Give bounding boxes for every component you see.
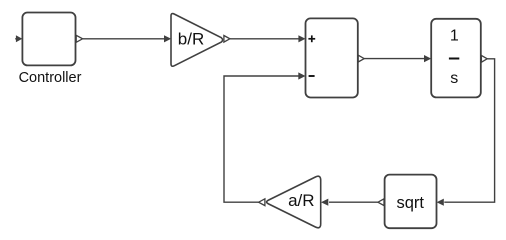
controller block Controller: [22, 13, 75, 66]
arrowhead into sqrt: [437, 199, 444, 206]
output port triangle of Controller: [76, 35, 82, 42]
output port triangle of b/R: [224, 36, 230, 43]
gain b/R: [171, 14, 223, 67]
feedback wire a/R to Sum minus input: [224, 76, 299, 202]
wire Controller to b/R: [83, 38, 165, 40]
arrowhead into Integrator: [424, 55, 431, 62]
sqrt block: [385, 175, 437, 229]
arrowhead into b/R: [164, 35, 171, 42]
svg-text:Controller: Controller: [19, 70, 82, 86]
input port arrow of Controller: [15, 35, 22, 42]
minus sign: [309, 75, 315, 77]
svg-text:s: s: [450, 70, 458, 87]
wire sqrt to a/R: [329, 201, 378, 203]
output port triangle of Sum: [358, 55, 364, 62]
wire b/R to Sum: [230, 38, 299, 40]
gain a/R: [267, 176, 321, 228]
output port triangle of sqrt: [378, 199, 384, 206]
wire Sum to Integrator: [364, 58, 424, 60]
wire Integrator down to sqrt: [444, 59, 494, 202]
arrowhead into Sum minus input: [298, 72, 305, 79]
output port triangle of a/R: [259, 199, 265, 206]
svg-text:b/R: b/R: [178, 30, 204, 49]
arrowhead into Sum plus input: [298, 35, 305, 42]
integrator block 1/s: [431, 19, 481, 98]
sum block: [306, 18, 358, 97]
svg-text:sqrt: sqrt: [396, 194, 424, 212]
svg-text:1: 1: [450, 27, 459, 44]
output port triangle of Integrator: [481, 55, 487, 62]
arrowhead into a/R: [321, 199, 328, 206]
plus sign: [308, 35, 315, 42]
svg-text:a/R: a/R: [288, 191, 314, 210]
